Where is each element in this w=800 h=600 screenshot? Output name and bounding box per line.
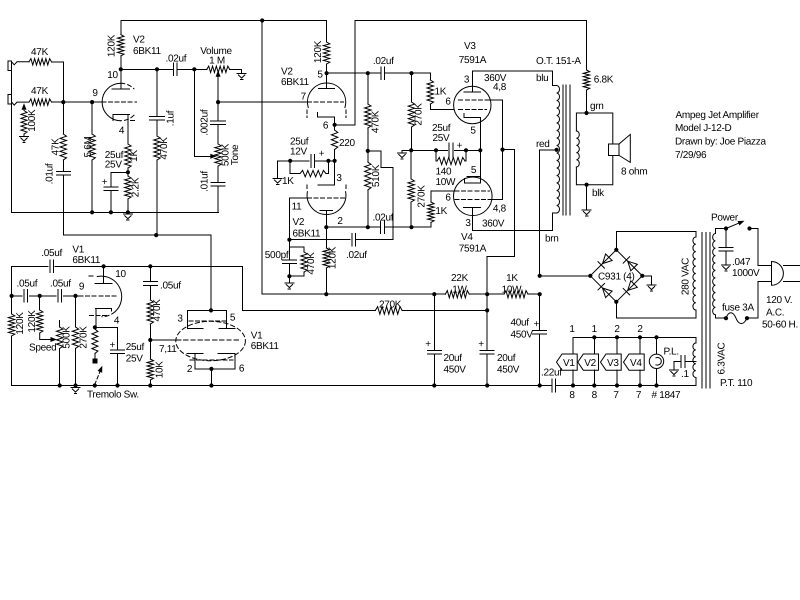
resistor 2.2K V2a cathode	[125, 172, 131, 212]
svg-text:6: 6	[239, 364, 245, 375]
label 50-60 H.	[762, 320, 798, 331]
resistor 270K tremolo mix	[375, 307, 487, 315]
wire V4 plate to OT brn	[472, 213, 556, 230]
label Tone	[230, 144, 241, 165]
label 25V cath	[433, 133, 451, 144]
title line 2	[675, 123, 731, 134]
title line 4	[675, 150, 707, 161]
wire cathode to 25uf	[95, 327, 118, 350]
wire trem plate line	[12, 265, 48, 267]
label 100K	[27, 109, 38, 132]
pin label 5 V3	[470, 126, 476, 137]
label .05uf C3	[50, 279, 71, 290]
svg-text:P.L.: P.L.	[664, 347, 679, 358]
label 500K speed	[61, 326, 72, 349]
svg-text:470K: 470K	[152, 299, 163, 322]
svg-text:450V: 450V	[511, 330, 534, 341]
svg-text:120K: 120K	[27, 310, 38, 333]
junction rail V3 cathode	[478, 148, 482, 152]
wire 270K to screen node	[402, 309, 487, 311]
tube V3 control grid dashes	[459, 108, 487, 110]
label P.L.	[664, 347, 679, 358]
svg-text:470K: 470K	[306, 252, 317, 275]
ground .047	[722, 265, 731, 271]
resistor 1K V2b bias	[290, 161, 328, 177]
svg-text:6: 6	[323, 121, 329, 132]
label 1K V4	[435, 206, 447, 217]
wire V1bc cathode to bus	[210, 369, 212, 386]
svg-text:120K: 120K	[15, 312, 26, 335]
svg-text:8: 8	[569, 390, 575, 401]
tube V3 cathode	[464, 113, 481, 117]
svg-text:25uf: 25uf	[126, 342, 145, 353]
pin label 9 V1a	[79, 282, 85, 293]
svg-text:40uf: 40uf	[511, 318, 530, 329]
transformer OT primary winding	[557, 86, 560, 214]
label 1K 10W	[506, 273, 518, 284]
pin label 3 V1bc	[177, 314, 183, 325]
resistor 47K series V2a grid chain	[60, 102, 66, 171]
wire 6.3V bottom	[695, 378, 697, 386]
svg-text:5: 5	[230, 313, 236, 324]
svg-text:red: red	[536, 139, 550, 150]
junction rail 140 right	[464, 148, 468, 152]
resistor 470K below .1uf	[154, 120, 160, 235]
wire grid to V1bc	[150, 339, 176, 341]
junction switch pivot	[93, 383, 97, 387]
wire feedback line	[63, 235, 211, 310]
ground OT secondary	[582, 210, 591, 216]
svg-text:7,11: 7,11	[159, 344, 177, 355]
junction osc node A	[10, 294, 14, 298]
svg-text:11: 11	[292, 202, 303, 213]
tube V1bc 6BK11 envelope (dashed ellipse)	[176, 321, 246, 360]
wire grid node to 5.6M node	[63, 101, 102, 103]
wire OT red tap to B+	[540, 150, 557, 276]
heater box V1 leads	[572, 337, 574, 385]
svg-text:V3: V3	[464, 41, 476, 52]
label 1K bias	[282, 176, 294, 187]
label 470K V1bc	[152, 299, 163, 322]
label 10W	[502, 285, 523, 296]
ground bridge	[647, 285, 656, 291]
wire .01uf to feedback line	[62, 175, 64, 235]
resistor V1a cathode (to switch)	[92, 329, 98, 363]
junction V3 grid node	[409, 71, 413, 75]
switch Power	[726, 221, 745, 229]
capacitor .1uf	[150, 117, 165, 121]
pin label 10 V1a	[115, 269, 126, 280]
wire 6.3V top	[695, 337, 697, 343]
svg-text:brn: brn	[545, 234, 559, 245]
pin 1 a	[569, 324, 575, 335]
svg-text:4: 4	[114, 316, 120, 327]
resistor 47K input 2	[29, 99, 63, 105]
svg-text:50-60 H.: 50-60 H.	[762, 320, 798, 331]
pin label 5 V1bc	[230, 313, 236, 324]
label blu	[536, 73, 548, 84]
label 120 V.	[766, 295, 792, 306]
svg-text:500pf: 500pf	[265, 250, 289, 261]
junction fuse left	[724, 316, 728, 320]
label V4	[461, 232, 473, 243]
svg-text:Tone: Tone	[230, 144, 241, 165]
pin label 6 V4	[445, 193, 451, 204]
label 47K input2	[31, 86, 49, 97]
svg-text:C931 (4): C931 (4)	[598, 272, 635, 283]
svg-text:.047: .047	[732, 257, 751, 268]
label 120K oscA	[15, 312, 26, 335]
label 8 ohm	[621, 167, 647, 178]
volume wiper arrow	[216, 70, 221, 102]
junction 5.6M at bus	[90, 210, 94, 214]
junction bridge left +	[588, 274, 592, 278]
junction heater bottom x594.3	[592, 383, 596, 387]
junction .1uf tap	[155, 67, 159, 71]
junction feedback 470K	[154, 233, 158, 237]
svg-text:7: 7	[613, 390, 619, 401]
fuse 3A	[726, 313, 747, 324]
pin 7 b	[636, 390, 642, 401]
svg-text:.02uf: .02uf	[373, 56, 394, 67]
pin 1 b	[592, 324, 598, 335]
resistor 270K V3 grid leak	[408, 73, 414, 150]
svg-text:280 VAC: 280 VAC	[681, 258, 692, 295]
svg-text:.002uf: .002uf	[200, 109, 211, 136]
label 6.8K	[594, 75, 614, 86]
heater box V1	[557, 354, 578, 370]
wire PT primary bottom to fuse	[715, 315, 726, 318]
label V2 (b)	[281, 67, 293, 78]
resistor 270K V4 grid leak	[408, 150, 414, 227]
tube V2c cathode bar	[318, 184, 335, 186]
label 360V V4	[482, 219, 505, 230]
label 470K divider	[371, 110, 382, 133]
svg-text:.05uf: .05uf	[50, 279, 71, 290]
wire osc grid line a	[12, 295, 23, 297]
wire cathode rail right	[455, 149, 482, 151]
label 120K oscB	[27, 310, 38, 333]
svg-text:7: 7	[636, 390, 642, 401]
svg-text:10: 10	[115, 269, 126, 280]
junction 1K right	[326, 159, 330, 163]
svg-text:9: 9	[92, 88, 98, 99]
label 10K	[154, 361, 165, 379]
svg-text:+: +	[110, 340, 116, 351]
ground cathode rail	[398, 153, 407, 159]
wire V2c grid coupling line	[289, 239, 350, 241]
svg-text:9: 9	[79, 282, 85, 293]
label 1K V3	[435, 87, 447, 98]
svg-text:120K: 120K	[313, 40, 324, 63]
label + 20uf2	[478, 339, 484, 350]
svg-text:.1: .1	[681, 369, 689, 380]
ground 100K	[20, 137, 29, 143]
svg-text:1K: 1K	[435, 206, 447, 217]
label V2 (a)	[133, 35, 145, 46]
junction V1a plate	[102, 264, 106, 268]
svg-text:+: +	[425, 339, 431, 350]
label + 20uf1	[425, 339, 431, 350]
junction grn node	[584, 111, 588, 115]
label V1 bc	[251, 331, 263, 342]
tube V2a grid dashes	[102, 101, 137, 103]
wire cathode rail left	[401, 150, 403, 152]
rectifier bridge C931 diamond	[590, 250, 642, 302]
wire V2b cathode to NFB riser	[335, 21, 355, 125]
title line 1	[676, 110, 760, 121]
pin label 11 V2c	[292, 202, 303, 213]
wire plug bottom lead	[747, 282, 772, 319]
junction V2a cathode RC	[126, 170, 130, 174]
junction heater top x640	[638, 335, 642, 339]
tube V2a plate bar	[112, 88, 129, 90]
capacitor 500pf	[282, 240, 296, 277]
tube V1a 6BK11 envelope	[97, 276, 121, 317]
wire bridge + to B+ node	[540, 275, 591, 277]
junction 5.6M node	[90, 100, 94, 104]
svg-text:100K: 100K	[27, 109, 38, 132]
label # 1847	[652, 390, 682, 401]
svg-text:10W: 10W	[436, 177, 457, 188]
wire 25uf trem to bus	[117, 354, 119, 386]
junction bridge top	[614, 248, 618, 252]
svg-text:120K: 120K	[328, 246, 339, 269]
junction heater top x594.3	[592, 335, 596, 339]
label 20uf 2	[497, 353, 516, 364]
wire .02uf out to V4 1K	[384, 226, 431, 228]
wire .02uf to V3 grid node	[384, 72, 430, 74]
capacitor .05uf osc C2	[24, 290, 28, 303]
label 1 M	[209, 56, 225, 67]
label Tremolo Sw.	[87, 390, 139, 401]
resistor 470K V2c grid leak	[289, 247, 307, 276]
label .1	[681, 369, 689, 380]
label 470K (x157)	[159, 137, 170, 160]
label + 40uf	[534, 319, 540, 330]
tube V3 plate bar	[464, 71, 481, 92]
label Volume	[200, 46, 232, 57]
resistor 120K V2a plate load	[118, 21, 124, 70]
svg-text:.05uf: .05uf	[17, 279, 38, 290]
svg-text:.05uf: .05uf	[41, 248, 62, 259]
wire V2c cathode lead	[334, 161, 336, 185]
label 500K tone	[220, 143, 231, 166]
svg-text:47K: 47K	[31, 47, 49, 58]
svg-text:grn: grn	[590, 101, 604, 112]
capacitor 25uf 25V cathode	[449, 143, 453, 158]
junction V2c grid RC bottom	[287, 274, 291, 278]
label 450V 2	[497, 365, 520, 376]
svg-text:Tremolo Sw.: Tremolo Sw.	[87, 390, 139, 401]
heater box V2 leads	[593, 337, 595, 385]
label heater V2	[584, 358, 596, 369]
label .002uf	[200, 109, 211, 136]
svg-text:.05uf: .05uf	[160, 281, 181, 292]
label 7,11	[159, 344, 177, 355]
junction heater bottom x640	[638, 383, 642, 387]
svg-text:5.6M: 5.6M	[83, 136, 94, 157]
svg-text:O.T. 151-A: O.T. 151-A	[536, 56, 581, 67]
label brn	[545, 234, 559, 245]
wire jack ground bus (left edge)	[12, 62, 219, 213]
wire wiper to V2b grid	[218, 101, 307, 103]
junction V1bc cathode bus	[209, 383, 213, 387]
wire screen node riser	[487, 150, 514, 311]
pin label 5 V2b	[317, 70, 323, 81]
junction B+ bridge tap	[538, 274, 542, 278]
label grn	[590, 101, 604, 112]
diode bridge top-right	[623, 257, 637, 271]
svg-text:7591A: 7591A	[459, 244, 487, 255]
svg-text:Drawn by: Joe Piazza: Drawn by: Joe Piazza	[675, 137, 766, 148]
label heater V4	[630, 358, 642, 369]
svg-text:1K: 1K	[435, 87, 447, 98]
wire plug top lead	[750, 229, 772, 266]
label 6.3VAC	[717, 342, 728, 374]
wire plate node to .02uf	[121, 68, 174, 70]
svg-text:Power: Power	[711, 213, 739, 224]
pin label 4,8 V3	[493, 82, 507, 93]
tube V4 cathode	[465, 150, 481, 183]
junction OT red center tap	[555, 148, 559, 152]
tube V1a grid dashes	[79, 295, 117, 297]
label 510K	[371, 164, 382, 187]
resistor 120K osc B	[37, 296, 43, 333]
svg-text:V3: V3	[607, 358, 619, 369]
potentiometer Volume 1M	[207, 66, 230, 72]
speaker	[608, 134, 630, 162]
heater box V4	[624, 354, 645, 370]
label + 25uf12V	[319, 148, 325, 159]
svg-text:270K: 270K	[416, 185, 427, 208]
transformer OT core	[563, 85, 570, 215]
label .01uf	[45, 163, 56, 184]
pin label 4,8 V4	[493, 204, 507, 215]
ground volume	[237, 74, 246, 80]
resistor 510K divider	[365, 151, 371, 227]
junction osc node B	[38, 294, 42, 298]
resistor 10K V1bc	[147, 340, 153, 386]
svg-text:V2: V2	[584, 358, 596, 369]
junction 20uf1 bus	[432, 383, 436, 387]
svg-text:1K: 1K	[129, 150, 140, 162]
junction 510K bottom at plate line	[366, 225, 370, 229]
resistor 1K V4 grid	[428, 191, 434, 227]
pin label 6 V3	[445, 97, 451, 108]
wire .002uf top lead	[217, 102, 219, 121]
junction bridge bottom	[614, 300, 618, 304]
diode bridge bottom-right	[623, 281, 637, 295]
tube V3 7591A envelope	[454, 86, 491, 123]
svg-text:V1: V1	[563, 358, 575, 369]
svg-text:4: 4	[119, 126, 125, 137]
svg-text:6BK11: 6BK11	[293, 229, 322, 240]
svg-text:270K: 270K	[379, 300, 402, 311]
label 2.2K	[131, 177, 142, 197]
wire .1uf top lead	[156, 69, 158, 116]
wire V3 cathode lead pin5	[479, 118, 481, 151]
svg-text:Ampeg Jet Amplifier: Ampeg Jet Amplifier	[676, 110, 760, 121]
svg-text:6.8K: 6.8K	[594, 75, 614, 86]
pin label 6 V2b	[323, 121, 329, 132]
label .01uf tone	[200, 171, 211, 192]
pilot lamp P.L.	[649, 337, 663, 385]
svg-text:blu: blu	[536, 73, 548, 84]
wire rail 25uf left	[278, 160, 310, 162]
svg-text:V2: V2	[133, 35, 145, 46]
capacitor .1 heater	[674, 355, 696, 369]
transformer PT primary winding	[713, 234, 716, 315]
junction heater top x656.5	[654, 335, 658, 339]
junction 25uf bus	[109, 210, 113, 214]
tube V1bc grid dashes 7,11	[176, 339, 240, 341]
junction screens	[500, 148, 504, 152]
svg-text:1000V: 1000V	[732, 268, 760, 279]
label 47K input1	[31, 47, 49, 58]
svg-text:5: 5	[471, 165, 477, 176]
junction input grid node	[61, 100, 65, 104]
junction bridge right -	[640, 274, 644, 278]
junction heater bottom V1	[571, 383, 575, 387]
label 47K vertical	[51, 138, 62, 156]
junction switch right	[747, 226, 751, 230]
junction main B+ node	[538, 292, 542, 296]
label Speed	[29, 343, 56, 354]
capacitor .002uf	[211, 121, 226, 125]
junction V2b cathode	[333, 123, 337, 127]
svg-text:8 ohm: 8 ohm	[621, 167, 647, 178]
svg-text:120K: 120K	[107, 34, 118, 57]
wire V2b plate to .02uf	[327, 72, 381, 74]
tube V2b plate bar	[318, 73, 334, 89]
wire main ground bus	[12, 385, 553, 387]
tube V2c 6BK11 envelope	[307, 185, 346, 214]
wire volume to ground	[230, 69, 242, 73]
label 120K V2a	[107, 34, 118, 57]
label .1uf	[165, 110, 176, 126]
svg-text:5: 5	[470, 126, 476, 137]
junction volume wiper node	[216, 100, 220, 104]
junction V4 grid node	[409, 225, 413, 229]
pin label 4 V2a	[119, 126, 125, 137]
svg-text:P.T. 110: P.T. 110	[720, 378, 753, 389]
svg-text:25V: 25V	[105, 160, 123, 171]
label 6BK11 osc	[72, 255, 101, 266]
label 120K V2c	[328, 246, 339, 269]
label 25V trem	[126, 354, 144, 365]
svg-text:Model J-12-D: Model J-12-D	[675, 123, 731, 134]
label 5.6M	[83, 136, 94, 157]
tube V2c plate bar	[320, 210, 333, 227]
wire input1 to grid node	[52, 62, 64, 102]
label 270K V4	[416, 185, 427, 208]
svg-text:510K: 510K	[371, 164, 382, 187]
svg-text:270K: 270K	[79, 326, 90, 349]
wire RC to ground	[288, 276, 290, 282]
junction V2c plate node	[324, 225, 328, 229]
diode bridge bottom-left	[598, 283, 612, 297]
svg-text:6: 6	[445, 97, 451, 108]
junction V2c 120K at B+ rail	[324, 292, 328, 296]
junction V2c cathode rail	[333, 159, 337, 163]
junction 470K divider top	[366, 71, 370, 75]
resistor 120K V2c plate load	[323, 227, 329, 294]
junction rail 270K V3	[409, 148, 413, 152]
jack J2 tip contact + wire to 47K	[12, 102, 29, 105]
wire to 25uf cap	[111, 172, 128, 187]
junction V2b plate node	[325, 71, 329, 75]
